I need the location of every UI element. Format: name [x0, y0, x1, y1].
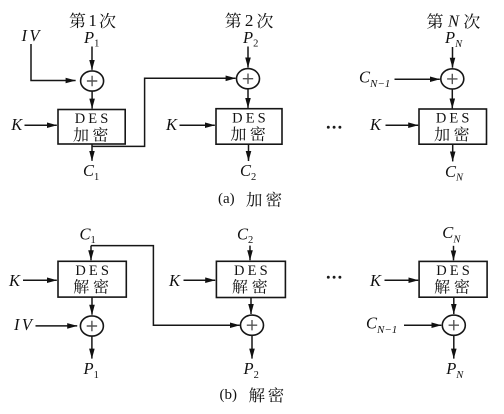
header round-1 label [70, 11, 116, 30]
wire CN down to box D3 [453, 246, 455, 260]
wire xor3 to DES box T3 [451, 89, 453, 108]
caption (b) decrypt [220, 387, 284, 403]
wire xor1 to DES box [91, 91, 93, 108]
wire box T2 output to C2 [248, 144, 250, 161]
wire K into box T1 [25, 124, 57, 126]
wire K into box D2 [184, 279, 216, 281]
wire C_N-1 into xor B3 [404, 324, 441, 326]
svg-text:K: K [168, 271, 181, 290]
wire K into box D1 [23, 279, 57, 281]
wire xor B3 to PN [453, 336, 455, 359]
wire box T3 output to CN [452, 144, 454, 161]
header round-N label [427, 11, 480, 30]
svg-text:DES: DES [436, 111, 473, 127]
header round-2 label [225, 11, 273, 30]
wire feedback C1 to xor2 [92, 78, 236, 146]
svg-text:DES: DES [234, 263, 271, 279]
svg-text:IV: IV [21, 26, 42, 45]
DES decrypt box D1 decrypt [58, 261, 126, 297]
xor adder B3 bottom [442, 315, 465, 335]
svg-text:DES: DES [75, 263, 112, 279]
xor adder B1 bottom [80, 316, 103, 336]
wire xor2 to DES box T2 [247, 89, 249, 108]
svg-text:K: K [165, 115, 178, 134]
DES encrypt box T3 encrypt [419, 109, 487, 144]
wire P1 down to xor1 [91, 47, 93, 70]
wire IV to xor1 [31, 44, 76, 81]
caption (a) encrypt [218, 191, 281, 207]
wire xor B1 to P1 [91, 336, 93, 358]
xor adder B2 bottom [241, 315, 264, 335]
svg-text:(b): (b) [220, 387, 238, 403]
wire xor B2 to P2 [251, 336, 253, 359]
DES decrypt box D3 decrypt [419, 261, 487, 297]
wire C2 down to box D2 [249, 246, 251, 261]
DES encrypt box T2 encrypt [216, 109, 282, 145]
svg-text:K: K [10, 115, 23, 134]
svg-text:IV: IV [13, 315, 34, 334]
ellipsis dots top [327, 126, 342, 129]
svg-text:DES: DES [436, 263, 473, 279]
svg-text:DES: DES [75, 111, 112, 127]
wire C_N-1 into xor3 [395, 78, 440, 80]
xor adder X1 top [81, 71, 104, 91]
svg-text:K: K [369, 271, 382, 290]
svg-text:DES: DES [232, 110, 269, 126]
wire P2 down to xor2 [247, 47, 249, 68]
xor adder X2 top [237, 69, 260, 89]
wire box D1 to xor B1 [91, 297, 93, 314]
svg-text:K: K [8, 271, 21, 290]
svg-text:(a): (a) [218, 191, 235, 207]
wire box D3 to xor B3 [453, 298, 455, 315]
wire box T1 output to C1 [91, 144, 93, 161]
wire K into box D3 [385, 279, 419, 281]
wire box D2 to xor B2 [250, 298, 252, 314]
xor adder X3 top [441, 69, 464, 89]
ellipsis dots bottom [327, 276, 342, 279]
wire K into box T2 [180, 124, 215, 126]
wire C1 down to box D1 [90, 246, 92, 261]
wire feed C1 to xor B2 [91, 246, 240, 326]
svg-text:K: K [369, 115, 382, 134]
wire IV into xor B1 [36, 325, 78, 327]
DES decrypt box D2 decrypt [216, 261, 285, 297]
wire PN down to xor3 [452, 47, 454, 68]
DES encrypt box T1 encrypt [58, 110, 125, 145]
wire K into box T3 [386, 124, 419, 126]
